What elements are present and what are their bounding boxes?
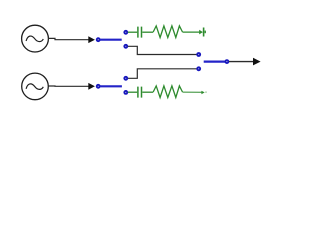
switch S3 pole node	[225, 59, 230, 64]
switch S1 throw node B (to bus)	[123, 44, 128, 49]
port nub (top)	[205, 31, 206, 34]
switch S1 throw node A (to RC)	[123, 30, 128, 35]
switch S2 lever	[100, 85, 122, 87]
wire A: S1 throw B to S3 upper throw	[128, 46, 197, 54]
wire B: S2 throw A to S3 lower throw	[128, 69, 197, 79]
AC source V2 (bottom)	[22, 73, 49, 100]
AC source V1 (top)	[22, 25, 49, 52]
switch S2 pole node	[96, 84, 101, 89]
wire V1 to switch S1	[48, 38, 89, 39]
bottom RC branch	[128, 86, 202, 98]
wire node to C2	[128, 91, 137, 93]
input arrow (top)	[88, 36, 95, 43]
top RC branch	[128, 26, 200, 38]
switch S3 throw node B (lower)	[196, 66, 201, 71]
wire V2 to switch S2	[48, 85, 89, 87]
wire node to C1	[128, 31, 137, 33]
output arrow	[253, 58, 261, 66]
resistor R2	[153, 86, 182, 98]
switch S1 lever	[100, 39, 122, 41]
wire R1 to port	[183, 31, 200, 33]
switch S1 pole node	[96, 37, 101, 42]
wire C2 to R2	[142, 91, 153, 93]
port bar (top)	[203, 28, 205, 37]
capacitor C1	[138, 27, 142, 38]
switch S3 lever	[204, 60, 227, 62]
capacitor C2	[138, 87, 142, 98]
switch S2 throw node A (to bus)	[123, 76, 128, 81]
port arrow (top)	[199, 30, 203, 35]
open-end arrow (bottom)	[201, 91, 204, 95]
open-end dash (bottom)	[205, 91, 207, 93]
wire C1 to R1	[142, 31, 153, 33]
wire R2 to open end	[183, 91, 202, 93]
input arrow (bottom)	[88, 83, 95, 90]
output wire	[229, 61, 253, 63]
resistor R1	[153, 26, 182, 38]
switch S2 throw node B (to RC)	[123, 90, 128, 95]
switch S3 throw node A (upper)	[196, 52, 201, 57]
